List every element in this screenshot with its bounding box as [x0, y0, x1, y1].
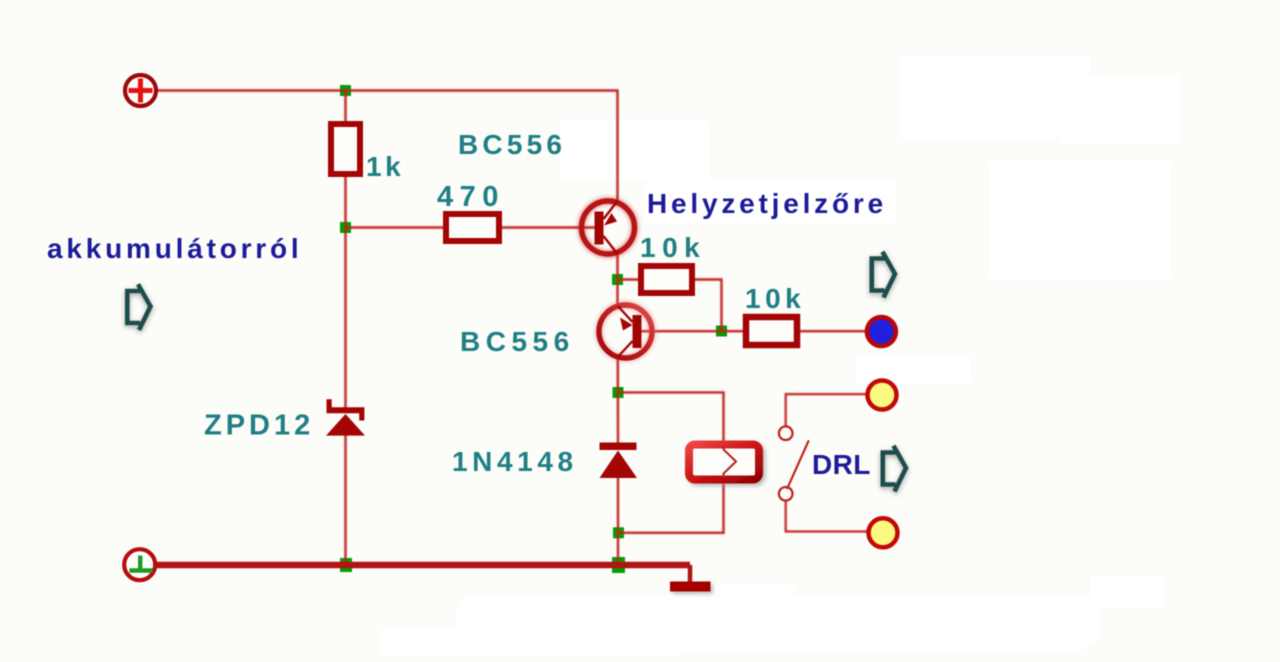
wire: Q1 collector down to node C	[616, 254, 618, 308]
wire: relay bottom to node F	[618, 481, 724, 533]
svg-text:BC556: BC556	[460, 326, 575, 357]
svg-text:10k: 10k	[640, 232, 706, 263]
wire: switch bottom contact to yellow terminal 2	[786, 500, 868, 532]
port akkumulátorról (teal)	[127, 284, 150, 330]
wire: Q2 collector down through diode column to bus	[617, 355, 620, 444]
ground bus (thick)	[157, 562, 690, 569]
svg-text:akkumulátorról: akkumulátorról	[47, 233, 302, 264]
svg-text:1N4148: 1N4148	[452, 446, 578, 477]
switch S1 contacts	[779, 426, 793, 440]
resistor R2 470	[446, 214, 499, 241]
port Helyzetjelzőre (teal)	[872, 252, 895, 298]
wire: below R1 to node B	[344, 174, 346, 408]
port DRL (teal)	[883, 446, 906, 492]
zener diode D1 ZPD12	[326, 399, 365, 435]
diode D2 1N4148	[600, 443, 638, 479]
svg-text:BC556: BC556	[458, 129, 566, 160]
yellow terminal 1	[868, 381, 897, 410]
junction on bus (zener branch)	[340, 558, 352, 572]
svg-text:DRL: DRL	[812, 449, 871, 480]
switch S1 lever	[787, 440, 809, 489]
wire: zener to ground bus	[344, 434, 346, 565]
transistor Q2 BC556 (PNP, base right, mirrored)	[599, 305, 652, 358]
battery positive terminal	[125, 75, 156, 106]
resistor R4 10k	[746, 317, 797, 345]
wire: node C through R3 then down to node D	[618, 278, 641, 280]
relay K1 coil	[689, 445, 759, 480]
junction node E (Q2 collector / relay top branch)	[613, 387, 624, 398]
ground symbol bar	[670, 582, 711, 592]
wire: node B to R2 to Q1 base	[346, 226, 446, 228]
junction node A (top of R1)	[340, 85, 351, 96]
junction node D (R3/R4/Q2 base)	[716, 326, 727, 337]
wire: top rail from + terminal to Q1 collector column	[157, 91, 618, 202]
junction on bus (diode branch)	[612, 557, 625, 573]
ground bus corner drop	[688, 565, 693, 583]
junction node B (R1 bottom / R2)	[340, 222, 351, 233]
svg-text:1k: 1k	[366, 151, 404, 182]
blue terminal	[867, 317, 896, 346]
background white patches	[380, 55, 1180, 655]
wire: vertical battery branch x=345.5	[344, 91, 346, 124]
resistor R1 1k	[331, 124, 360, 174]
wire: Q2 base to node D to R4	[641, 330, 745, 332]
resistor R3 10k	[641, 266, 692, 293]
wire: switch top contact to yellow terminal 1	[786, 394, 867, 427]
wire: R4 to blue terminal	[797, 330, 868, 332]
battery negative (ground) terminal	[124, 549, 155, 580]
transistor Q1 BC556 (PNP, base left)	[582, 201, 635, 254]
wire: node E to relay top	[618, 392, 724, 443]
svg-text:470: 470	[437, 181, 505, 213]
svg-text:10k: 10k	[745, 283, 805, 314]
junction node C (Q1 collector / R3)	[612, 274, 623, 285]
junction node F (diode bottom / relay bottom)	[613, 527, 624, 538]
yellow terminal 2	[869, 518, 898, 547]
svg-text:Helyzetjelzőre: Helyzetjelzőre	[647, 188, 887, 219]
svg-text:ZPD12: ZPD12	[204, 410, 314, 442]
